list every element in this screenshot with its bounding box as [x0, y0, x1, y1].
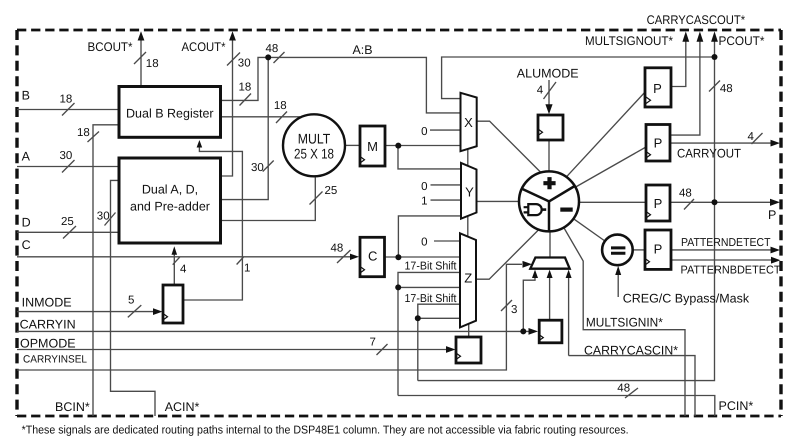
wire CARRYCASCIN — [569, 356, 695, 416]
C register — [360, 237, 385, 276]
svg-text:7: 7 — [370, 337, 376, 349]
dashed boundary of DSP48E1 slice — [17, 29, 781, 32]
svg-text:A: A — [22, 150, 31, 164]
wire P feedback riser with 17-bit shift branch — [418, 304, 460, 380]
svg-text:CARRYCASCIN*: CARRYCASCIN* — [584, 344, 678, 358]
arrow into CARRYIN register — [529, 328, 539, 335]
svg-text:CARRYCASCOUT*: CARRYCASCOUT* — [647, 13, 746, 27]
CARRYIN register — [539, 320, 562, 343]
svg-text:0: 0 — [421, 237, 427, 249]
svg-text:1: 1 — [244, 263, 250, 275]
svg-text:PATTERNDETECT: PATTERNDETECT — [681, 237, 771, 249]
wire P1 to MULTSIGNOUT — [671, 40, 686, 87]
svg-text:PATTERNBDETECT: PATTERNBDETECT — [681, 265, 781, 277]
arrow BCOUT up — [138, 31, 145, 40]
svg-text:PCIN*: PCIN* — [719, 399, 754, 413]
wire ALU carry input from carry mux — [549, 231, 551, 257]
svg-text:ACOUT*: ACOUT* — [182, 40, 226, 54]
arrow CARRYOUT at boundary — [771, 140, 781, 147]
svg-text:18: 18 — [239, 82, 252, 94]
svg-text:D: D — [22, 216, 31, 230]
wire pre-adder 25-bit to multiplier — [221, 178, 316, 221]
wire BCIN riser — [93, 125, 119, 416]
svg-text:MULTSIGNIN*: MULTSIGNIN* — [586, 316, 663, 330]
multiplier MULT 25x18 — [283, 114, 345, 176]
wire PCIN from boundary — [398, 396, 715, 417]
slash B upper output 18 — [240, 94, 252, 106]
arrow MULTSIGNOUT up — [682, 31, 689, 41]
slash B 18 — [62, 103, 75, 116]
slash ACIN 30 — [105, 213, 116, 226]
arrow carry mux middle input — [547, 270, 553, 278]
wire X mux constant 0 stub — [430, 129, 460, 131]
ALU minus symbol — [560, 208, 572, 212]
slash mult 25 riser — [310, 192, 323, 205]
wire Y mux constant 1 stub — [431, 199, 461, 201]
wire ALUMODE register to ALU — [548, 140, 550, 171]
slash CARRYINSEL 3 — [501, 300, 512, 311]
svg-text:A:B: A:B — [353, 43, 373, 57]
svg-text:5: 5 — [128, 295, 134, 307]
svg-text:0: 0 — [421, 126, 427, 138]
svg-text:18: 18 — [77, 127, 90, 139]
slash B to mult 18 — [276, 112, 287, 124]
svg-text:C: C — [22, 238, 31, 252]
ALU plus symbol — [543, 177, 572, 210]
svg-text:M: M — [367, 139, 378, 154]
wire OPMODE input — [17, 349, 447, 351]
arrow carry mux select — [523, 261, 533, 268]
numeric bus width labels — [60, 43, 755, 395]
wire P feedback to X mux — [442, 57, 715, 99]
wire B register 18-bit to multiplier — [221, 116, 301, 118]
slash INMODE 5 — [128, 305, 142, 317]
wire INMODE register 1-bit to Dual B register — [183, 147, 242, 301]
svg-text:1: 1 — [421, 196, 427, 208]
wire MULTSIGNIN — [563, 227, 685, 416]
svg-text:18: 18 — [274, 100, 287, 112]
wire CREG/C bypass to comparator — [617, 273, 619, 297]
arrow PATTERNDETECT at boundary — [771, 247, 781, 254]
svg-text:ACIN*: ACIN* — [165, 400, 200, 414]
wire CARRYIN input — [17, 330, 529, 332]
slash PCIN 48 — [625, 388, 638, 398]
svg-text:BCIN*: BCIN* — [55, 400, 90, 414]
slash ALUMODE 4 — [544, 82, 557, 99]
slash P 48 — [684, 199, 694, 210]
wire C input — [17, 256, 351, 258]
svg-text:MULT: MULT — [298, 131, 331, 147]
ALUMODE register — [538, 115, 563, 140]
slash OPMODE 7 — [377, 344, 388, 355]
svg-text:Z: Z — [464, 270, 472, 285]
svg-text:0: 0 — [421, 181, 427, 193]
svg-text:30: 30 — [97, 211, 110, 223]
wire C branch riser to Y mux — [398, 216, 460, 257]
arrow into C register — [350, 254, 359, 260]
P register MULTSIGNOUT — [645, 68, 671, 107]
slash BCOUT 18 — [134, 52, 146, 64]
OPMODE register — [456, 337, 481, 363]
svg-text:Dual B Register: Dual B Register — [126, 106, 214, 120]
svg-text:3: 3 — [511, 304, 517, 316]
node PCIN shift junction — [395, 284, 401, 290]
arrow ALUMODE down — [545, 104, 552, 114]
wire OPMODE register select to muxes — [467, 149, 470, 337]
ALU and-gate symbol — [524, 204, 547, 215]
wire B input — [17, 109, 119, 111]
wire B register upper output jog to A:B node — [221, 57, 267, 100]
wire D input — [17, 231, 119, 233]
INMODE register — [163, 285, 183, 323]
P register pattern detect — [645, 230, 671, 269]
wire PCIN riser with 17-bit shift branch — [398, 272, 460, 395]
arrow carry mux left input — [532, 270, 538, 278]
svg-text:18: 18 — [60, 94, 73, 106]
svg-text:Dual A, D,: Dual A, D, — [142, 183, 198, 197]
slash INMODE 4 — [173, 257, 180, 265]
wire Y mux constant 0 stub — [431, 184, 461, 186]
arrow into Dual B register bottom — [197, 140, 203, 148]
Y multiplexer — [461, 163, 477, 219]
wire ALUMODE stub — [548, 80, 550, 108]
ALU circle — [519, 171, 579, 231]
svg-text:48: 48 — [617, 383, 630, 395]
P register CARRYOUT — [646, 125, 670, 162]
node M output junction — [395, 143, 401, 149]
node P feedback top junction — [712, 54, 718, 60]
svg-text:and Pre-adder: and Pre-adder — [130, 200, 210, 214]
svg-text:30: 30 — [60, 150, 73, 162]
svg-text:17-Bit Shift: 17-Bit Shift — [405, 261, 458, 273]
wire A register 30-bit riser to A:B node — [221, 59, 269, 200]
svg-text:4: 4 — [537, 85, 544, 97]
svg-text:48: 48 — [720, 83, 733, 95]
slash A 30 — [62, 160, 75, 173]
bus-width slash marks — [62, 52, 763, 398]
node CARRYIN junction — [520, 328, 526, 334]
wire Z mux output to ALU — [477, 230, 538, 279]
wire C register output to Z mux — [385, 256, 461, 258]
Z multiplexer — [460, 233, 476, 327]
arrowheads — [138, 31, 781, 353]
arrow into INMODE register — [153, 308, 163, 315]
wire BCOUT — [140, 40, 142, 86]
svg-text:48: 48 — [331, 242, 344, 254]
M register — [360, 126, 385, 166]
svg-text:4: 4 — [180, 264, 187, 276]
arrow carry mux right input — [566, 270, 572, 278]
svg-text:Y: Y — [465, 185, 474, 200]
wire Y mux output to ALU — [477, 200, 520, 202]
svg-text:PCOUT*: PCOUT* — [719, 34, 765, 48]
wire carry mux input CARRYCASCIN — [568, 278, 570, 356]
svg-text:P: P — [653, 81, 662, 96]
svg-text:B: B — [22, 89, 30, 103]
wire Z mux constant 0 stub — [434, 240, 460, 242]
arrow into comparator bottom — [615, 266, 621, 275]
arrow into OPMODE register — [446, 346, 456, 353]
wire PATTERNDETECT — [671, 249, 772, 251]
P register main — [646, 185, 670, 221]
arrow into pre-adder bottom — [172, 246, 178, 255]
svg-text:C: C — [368, 249, 377, 264]
svg-text:CARRYOUT: CARRYOUT — [677, 147, 741, 161]
slash BCIN 18 — [88, 132, 100, 143]
wire CARRYINSEL input — [17, 264, 522, 370]
wire ALU to MULTSIGNOUT P register — [566, 91, 646, 177]
svg-text:CARRYINSEL: CARRYINSEL — [23, 354, 87, 366]
wire INMODE input — [17, 311, 154, 313]
wire ALU to pattern comparator — [573, 218, 605, 241]
svg-text:25: 25 — [61, 216, 74, 228]
svg-text:*These signals are dedicated r: *These signals are dedicated routing pat… — [22, 425, 629, 437]
svg-text:P: P — [768, 208, 776, 222]
svg-text:48: 48 — [679, 188, 692, 200]
svg-text:ALUMODE: ALUMODE — [517, 67, 579, 81]
slash CARRYOUT 4 — [752, 133, 763, 144]
wire ACIN riser — [111, 180, 156, 416]
svg-text:25 X 18: 25 X 18 — [294, 146, 334, 162]
svg-text:18: 18 — [146, 58, 159, 70]
arrow ACOUT up — [229, 31, 236, 40]
slash ACOUT 30 — [227, 53, 240, 66]
pattern comparator equals circle — [602, 235, 633, 266]
slash INMODE 1 — [237, 257, 244, 265]
svg-text:MULTSIGNOUT*: MULTSIGNOUT* — [585, 34, 673, 48]
slash PCOUT 48 — [709, 81, 720, 92]
wire ACOUT — [221, 40, 233, 176]
wire A:B bus to X mux — [268, 57, 460, 113]
wire ALU to CARRYOUT P register — [575, 147, 646, 188]
svg-text:4: 4 — [748, 131, 755, 143]
wire ALU output to P register — [578, 201, 646, 203]
wire carry mux input CARRYIN direct — [523, 278, 535, 332]
svg-text:INMODE: INMODE — [22, 295, 72, 309]
arrow P at boundary — [770, 199, 780, 206]
wire PCOUT bus — [418, 40, 715, 381]
wire A input — [17, 166, 119, 168]
Dual B Register block — [119, 87, 221, 138]
svg-text:30: 30 — [238, 58, 251, 70]
wire carry mux input registered carry — [549, 278, 551, 320]
svg-text:25: 25 — [325, 185, 338, 197]
node P shift junction — [415, 315, 421, 321]
svg-text:30: 30 — [251, 162, 264, 174]
wire multiplier to M register — [345, 144, 360, 146]
arrow CARRYCASCOUT up — [697, 31, 704, 41]
svg-text:X: X — [464, 115, 473, 130]
wire PATTERNBDETECT — [671, 259, 772, 261]
node C output junction — [395, 254, 401, 260]
svg-text:CARRYIN: CARRYIN — [20, 318, 76, 332]
slash D 25 — [63, 226, 76, 239]
svg-text:BCOUT*: BCOUT* — [88, 40, 133, 54]
wire X mux output to ALU — [477, 121, 541, 172]
svg-text:P: P — [654, 136, 663, 151]
slash C 48 — [337, 250, 351, 263]
wire M output branch to Y mux — [398, 146, 460, 169]
wire P output to boundary — [670, 201, 772, 203]
wire comparator to pattern P register — [633, 249, 645, 251]
X multiplexer — [461, 93, 477, 151]
svg-text:OPMODE: OPMODE — [20, 336, 76, 350]
svg-text:CREG/C Bypass/Mask: CREG/C Bypass/Mask — [623, 292, 750, 306]
wire CARRYOUT to boundary — [670, 142, 772, 144]
wire P2 to CARRYCASCOUT — [670, 40, 700, 135]
slash A:B 48 — [274, 52, 285, 63]
node A:B junction — [265, 54, 271, 60]
svg-text:48: 48 — [266, 43, 279, 55]
wire INMODE register 4-bit to pre-adder — [173, 254, 175, 285]
svg-text:P: P — [654, 196, 663, 211]
svg-text:17-Bit Shift: 17-Bit Shift — [405, 293, 458, 305]
carry-in select mux — [530, 258, 569, 269]
node P output junction — [712, 199, 718, 205]
Dual A, D and Pre-adder block — [119, 158, 221, 243]
svg-text:P: P — [654, 242, 663, 257]
arrow PCOUT up — [711, 31, 718, 41]
wire M register output to X mux — [385, 145, 460, 147]
slash A 30 riser — [263, 161, 274, 172]
arrow PATTERNBDETECT at boundary — [771, 257, 781, 264]
